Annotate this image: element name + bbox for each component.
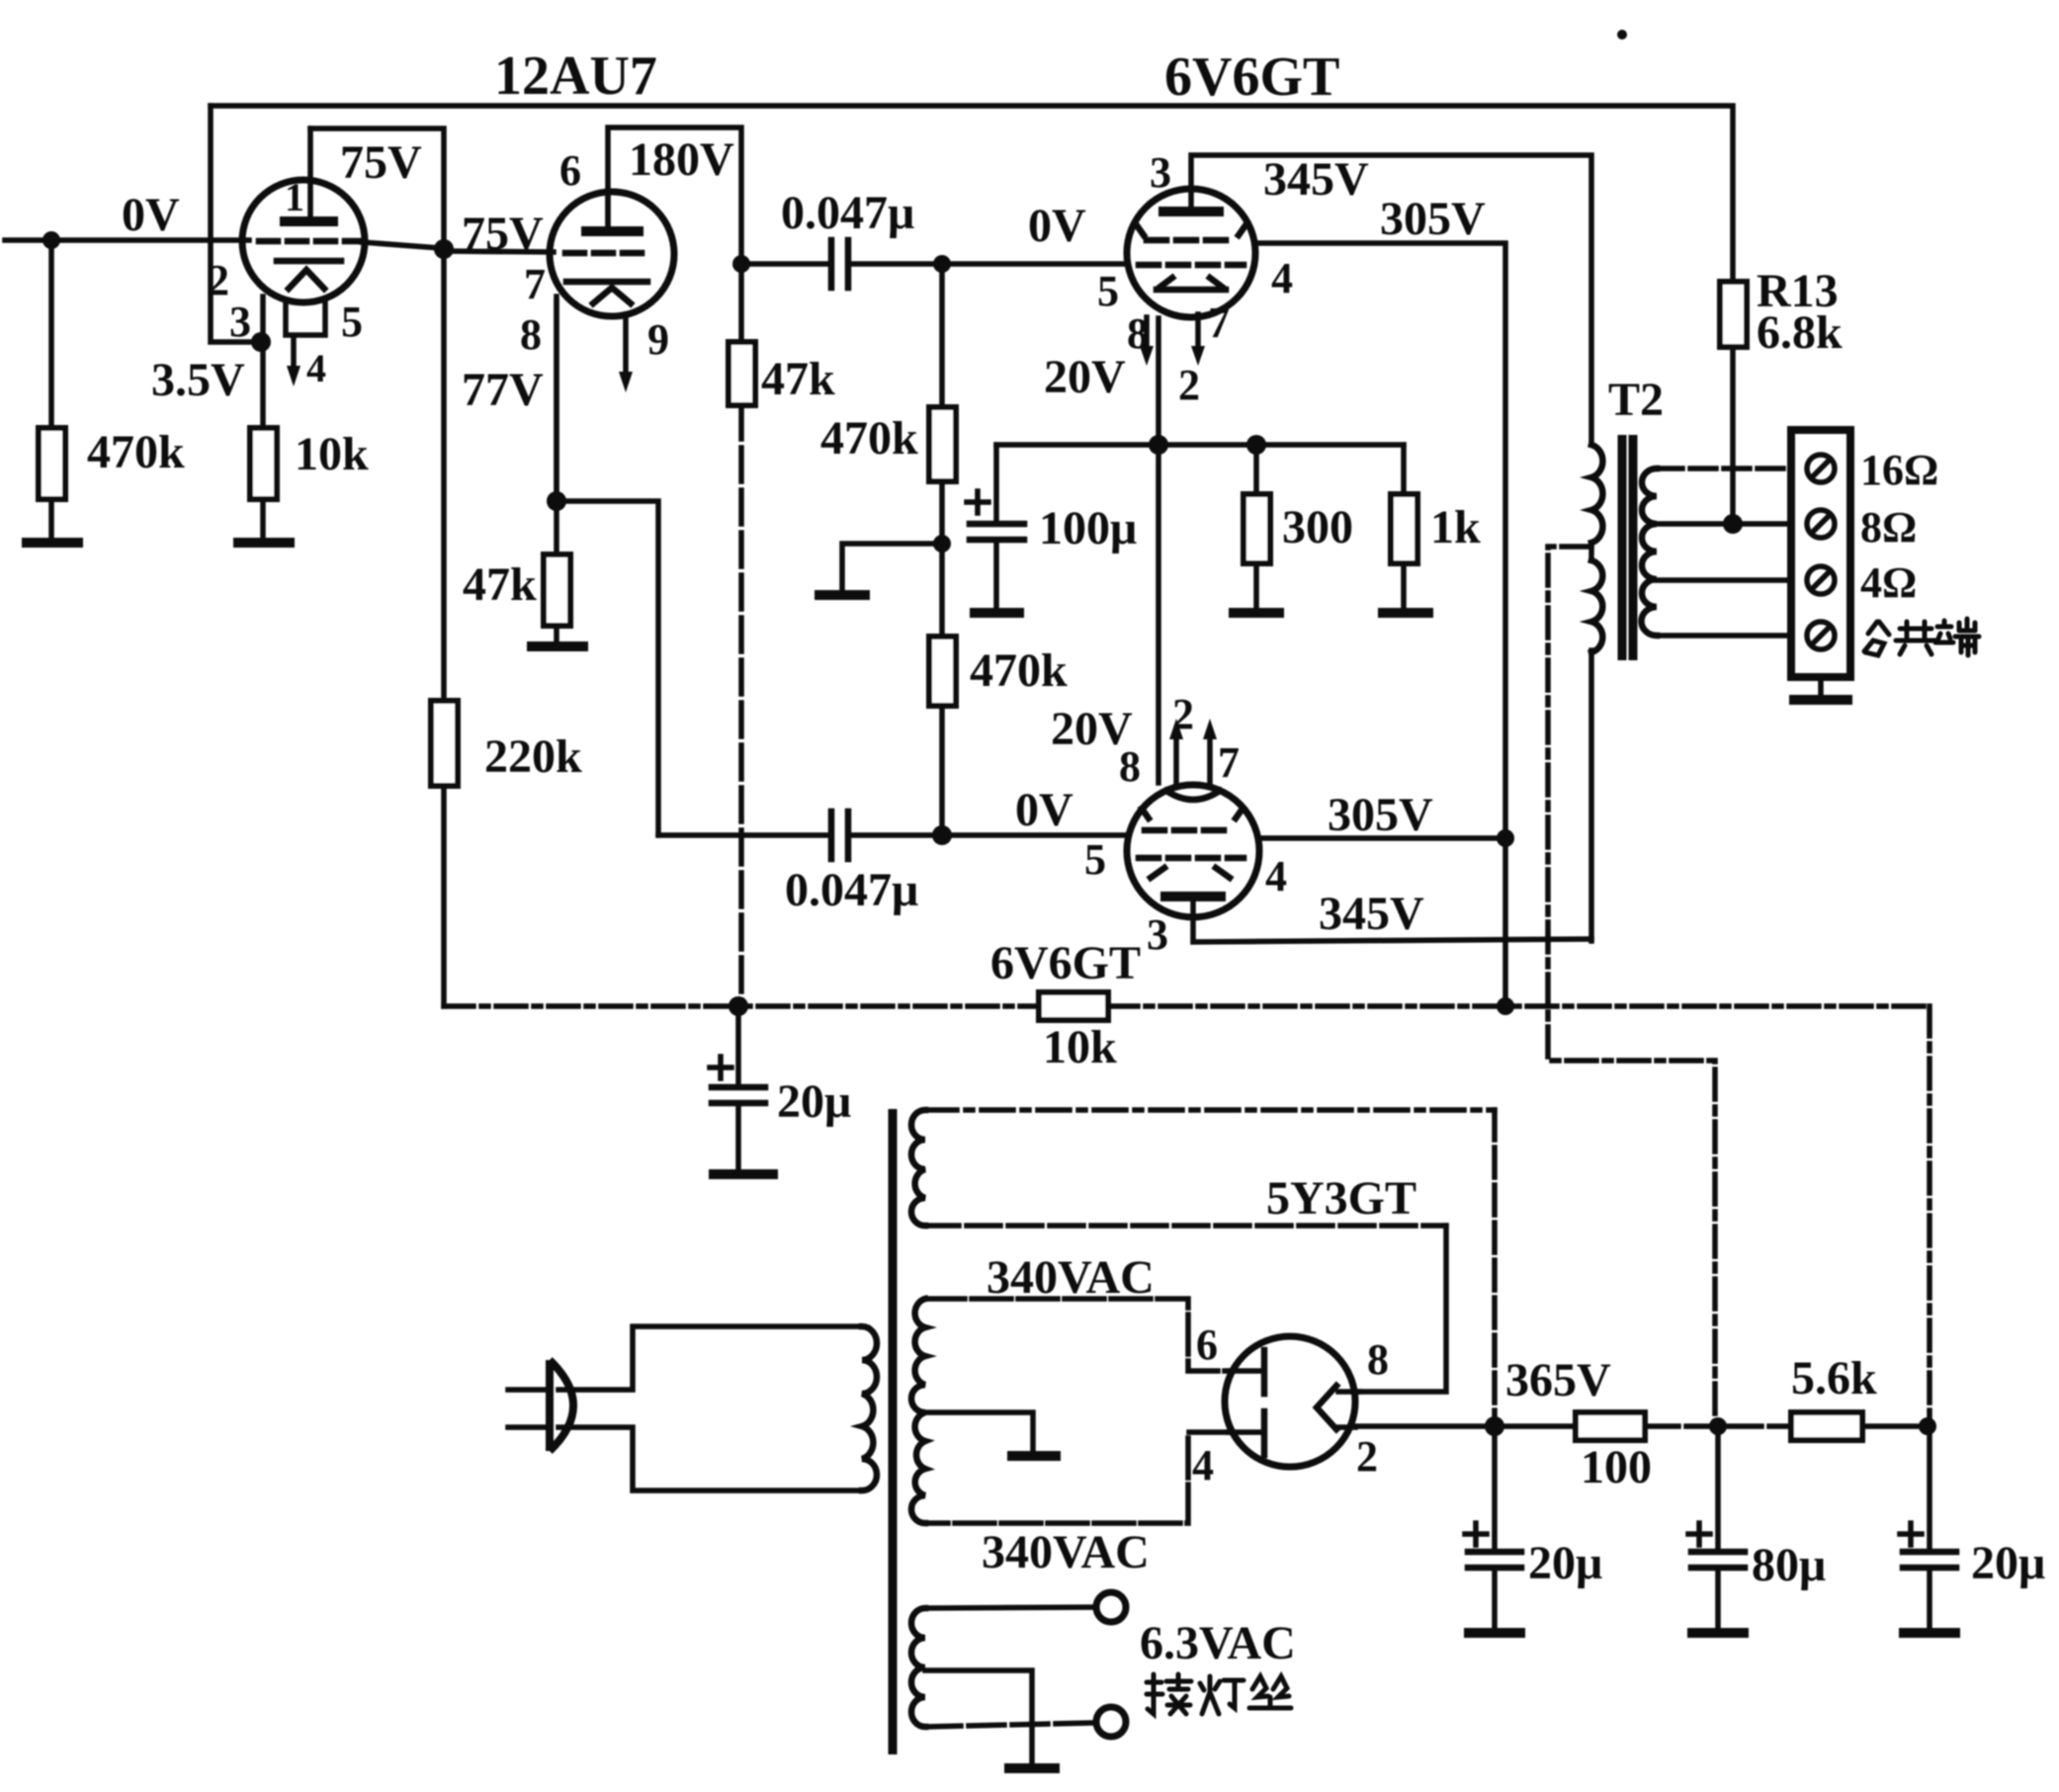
svg-text:80μ: 80μ <box>1752 1539 1826 1591</box>
svg-text:16Ω: 16Ω <box>1860 446 1938 494</box>
svg-text:7: 7 <box>1208 299 1230 347</box>
svg-text:12AU7: 12AU7 <box>494 45 657 107</box>
svg-text:180V: 180V <box>629 133 734 186</box>
svg-text:345V: 345V <box>1319 888 1424 940</box>
svg-text:6.3VAC: 6.3VAC <box>1140 1617 1296 1669</box>
svg-text:2: 2 <box>1356 1432 1378 1481</box>
svg-text:4: 4 <box>1271 254 1293 302</box>
svg-text:300: 300 <box>1282 501 1353 554</box>
svg-text:75V: 75V <box>462 208 544 260</box>
svg-text:340VAC: 340VAC <box>982 1526 1150 1579</box>
svg-text:3: 3 <box>1150 148 1171 197</box>
svg-text:0V: 0V <box>1028 200 1086 252</box>
svg-text:47k: 47k <box>463 558 537 611</box>
svg-text:6V6GT: 6V6GT <box>1164 46 1339 108</box>
svg-text:6V6GT: 6V6GT <box>990 937 1141 989</box>
svg-text:1k: 1k <box>1430 501 1481 554</box>
svg-text:75V: 75V <box>340 136 422 189</box>
svg-text:340VAC: 340VAC <box>987 1251 1155 1304</box>
svg-text:2: 2 <box>208 256 229 304</box>
svg-text:20μ: 20μ <box>1971 1537 2045 1589</box>
svg-text:0V: 0V <box>122 189 180 241</box>
svg-text:8: 8 <box>1367 1335 1389 1384</box>
svg-text:2: 2 <box>1178 361 1200 409</box>
svg-text:0.047μ: 0.047μ <box>781 187 914 239</box>
svg-text:220k: 220k <box>484 730 582 783</box>
svg-text:5: 5 <box>1097 267 1119 315</box>
svg-text:77V: 77V <box>462 364 544 416</box>
svg-text:10k: 10k <box>1043 1021 1117 1073</box>
svg-text:6: 6 <box>559 146 581 195</box>
svg-text:8: 8 <box>1119 742 1141 791</box>
svg-text:T2: T2 <box>1608 374 1664 426</box>
svg-text:470k: 470k <box>820 412 918 465</box>
svg-text:3: 3 <box>1147 910 1168 959</box>
svg-text:4: 4 <box>1192 1441 1214 1490</box>
svg-text:5.6k: 5.6k <box>1791 1352 1877 1405</box>
svg-text:9: 9 <box>647 315 669 364</box>
svg-text:5: 5 <box>1084 835 1106 884</box>
svg-text:6: 6 <box>1196 1321 1218 1369</box>
svg-text:305V: 305V <box>1328 789 1433 841</box>
svg-text:47k: 47k <box>761 353 835 405</box>
svg-text:0V: 0V <box>1015 784 1073 836</box>
svg-text:3: 3 <box>229 298 251 346</box>
svg-text:10k: 10k <box>295 428 369 480</box>
svg-text:8: 8 <box>520 310 542 359</box>
svg-text:4: 4 <box>306 346 326 390</box>
svg-text:470k: 470k <box>970 644 1068 697</box>
svg-text:5Y3GT: 5Y3GT <box>1266 1172 1416 1225</box>
svg-text:5: 5 <box>341 298 363 346</box>
svg-text:8: 8 <box>1127 309 1149 358</box>
svg-text:4: 4 <box>1265 852 1287 900</box>
svg-text:8Ω: 8Ω <box>1860 503 1917 552</box>
svg-text:470k: 470k <box>87 426 185 478</box>
svg-text:345V: 345V <box>1263 153 1369 206</box>
svg-text:305V: 305V <box>1380 193 1486 245</box>
svg-text:20μ: 20μ <box>1528 1537 1602 1589</box>
svg-text:100μ: 100μ <box>1039 502 1137 555</box>
svg-text:6.8k: 6.8k <box>1757 306 1843 359</box>
svg-text:7: 7 <box>1218 738 1240 787</box>
svg-text:20V: 20V <box>1044 351 1126 403</box>
svg-text:0.047μ: 0.047μ <box>785 864 918 916</box>
svg-text:20μ: 20μ <box>777 1075 851 1128</box>
svg-text:365V: 365V <box>1505 1354 1611 1407</box>
svg-text:3.5V: 3.5V <box>151 354 245 406</box>
svg-text:4Ω: 4Ω <box>1860 558 1917 607</box>
svg-text:7: 7 <box>524 260 546 308</box>
svg-text:1: 1 <box>285 175 304 219</box>
svg-text:2: 2 <box>1172 690 1194 738</box>
svg-text:100: 100 <box>1581 1441 1652 1493</box>
